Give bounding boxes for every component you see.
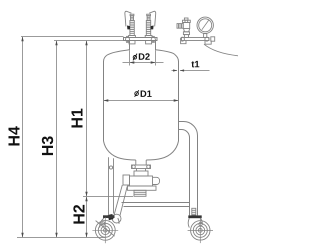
tank left wall	[103, 61, 105, 141]
arrow t1 right	[180, 69, 184, 71]
threaded body	[146, 21, 150, 36]
pipe from tank right to bottom	[179, 122, 198, 216]
right wheel	[188, 218, 213, 243]
left leg	[109, 157, 114, 215]
arrow H1 top	[85, 41, 87, 46]
hose end ball	[112, 214, 121, 223]
dimension H3 line	[56, 41, 58, 238]
threaded body	[130, 21, 134, 36]
label H2	[73, 205, 84, 224]
dimension t1 leader right	[180, 70, 210, 72]
arrow H4 bottom	[21, 233, 23, 238]
label H1	[71, 109, 82, 128]
valve V2 (right, on lid)	[145, 11, 156, 44]
plate	[188, 215, 201, 218]
BOTTOM OUTLET	[123, 160, 160, 196]
wire extension line (outlet stub bottom)	[83, 196, 133, 198]
hose to caster	[112, 185, 127, 223]
body	[183, 23, 190, 29]
lid bolt left	[125, 36, 129, 42]
base	[183, 32, 189, 35]
dimension H4 line	[22, 37, 24, 238]
plate	[103, 215, 115, 218]
nut below lid	[146, 41, 152, 44]
label H3	[42, 136, 53, 155]
valve V1 wing (black)	[127, 26, 130, 30]
arrow H3 top	[55, 41, 57, 46]
outlet neck	[135, 160, 137, 165]
bottom flange	[128, 186, 157, 190]
dimension D2 extension line left	[129, 51, 131, 66]
tank neck right wall	[155, 41, 157, 51]
clamp flange	[132, 165, 151, 169]
wire extension line top (lid top level)	[21, 36, 124, 38]
frame rails	[122, 203, 190, 207]
tank top head right shoulder	[156, 50, 179, 62]
manifold right bolt	[205, 37, 209, 41]
arrow D2 right	[151, 61, 156, 63]
dimension t1 arrow segment left	[172, 70, 178, 72]
outlet stub threaded	[134, 190, 146, 196]
manifold right foot	[205, 41, 211, 45]
cap	[183, 20, 191, 22]
left wheel	[92, 217, 118, 243]
dimension D2 extension line right	[155, 51, 157, 66]
valve V1 (left, on lid)	[125, 11, 136, 44]
handle wire	[149, 11, 156, 26]
taper	[184, 29, 190, 32]
tank bottom head right	[146, 141, 178, 160]
knob	[184, 18, 188, 20]
manifold left foot	[181, 41, 186, 44]
dimension D2 line	[123, 62, 164, 64]
valve upper neck	[136, 169, 138, 172]
arrow H2 top	[85, 197, 87, 202]
left caster	[96, 215, 119, 236]
arrow H4 top	[21, 37, 23, 42]
dimension D1 line	[104, 100, 179, 102]
GAUGE ASSEMBLY top right	[180, 37, 238, 56]
wire ground extension line	[17, 237, 105, 239]
hose curve	[204, 44, 238, 56]
manifold end cap	[211, 37, 215, 41]
valve V2 wing (black)	[151, 26, 154, 30]
stem threaded	[192, 208, 196, 215]
valve main body	[130, 176, 153, 186]
handle wire	[125, 11, 132, 26]
relief valve	[177, 18, 190, 38]
label phi D1	[135, 90, 152, 97]
top stem	[131, 16, 134, 21]
tank lid plate	[124, 38, 158, 41]
flange nut above lid	[129, 36, 136, 38]
wire extension line (lid bottom level)	[54, 40, 124, 42]
top stem	[147, 16, 150, 21]
fork	[188, 218, 189, 227]
fork	[100, 218, 104, 228]
tank right wall	[178, 61, 180, 141]
nut below lid	[129, 41, 135, 44]
pressure gauge	[197, 17, 213, 37]
tank top head left shoulder	[104, 50, 130, 62]
right caster	[188, 208, 202, 227]
arrow H3 bottom	[55, 233, 57, 238]
valve upper block	[134, 171, 148, 176]
tank bottom head left	[104, 141, 136, 160]
arrow D2 left	[130, 61, 135, 63]
right cap	[153, 177, 160, 184]
label H4	[8, 126, 19, 145]
manifold bar	[182, 38, 210, 41]
arrow D1 right	[174, 99, 179, 101]
flange nut above lid	[145, 36, 152, 38]
arrow D1 left	[104, 99, 109, 101]
manifold left bolt	[180, 37, 184, 41]
lid bolt right	[151, 36, 155, 42]
arrow H2 bottom	[85, 233, 87, 238]
hose coupler (dark)	[108, 214, 114, 220]
label t1	[191, 61, 199, 67]
left boss	[123, 175, 130, 185]
tank neck left wall	[129, 41, 131, 51]
spout left	[177, 24, 183, 29]
TANK	[104, 38, 179, 161]
arrow t1 left	[173, 69, 177, 71]
arrowheads	[21, 37, 184, 238]
dimension H2 line	[86, 197, 88, 238]
dimension H1 line	[86, 41, 88, 197]
arrow H1 bottom	[85, 192, 87, 197]
label phi D2	[133, 53, 150, 60]
